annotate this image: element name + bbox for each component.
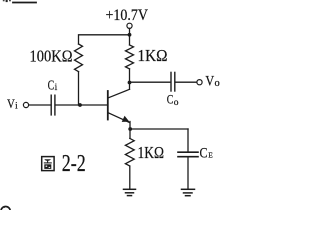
svg-text:100KΩ: 100KΩ: [30, 46, 73, 65]
svg-text:CE: CE: [200, 146, 214, 162]
svg-text:1KΩ: 1KΩ: [138, 46, 168, 65]
svg-text:Vi: Vi: [7, 96, 18, 111]
svg-text:+10.7V: +10.7V: [106, 7, 149, 24]
svg-text:1KΩ: 1KΩ: [138, 143, 165, 162]
svg-text:2-2: 2-2: [62, 151, 86, 177]
svg-text:Ci: Ci: [48, 77, 58, 93]
svg-text:Co: Co: [167, 92, 179, 108]
svg-text:Vo: Vo: [205, 74, 219, 90]
